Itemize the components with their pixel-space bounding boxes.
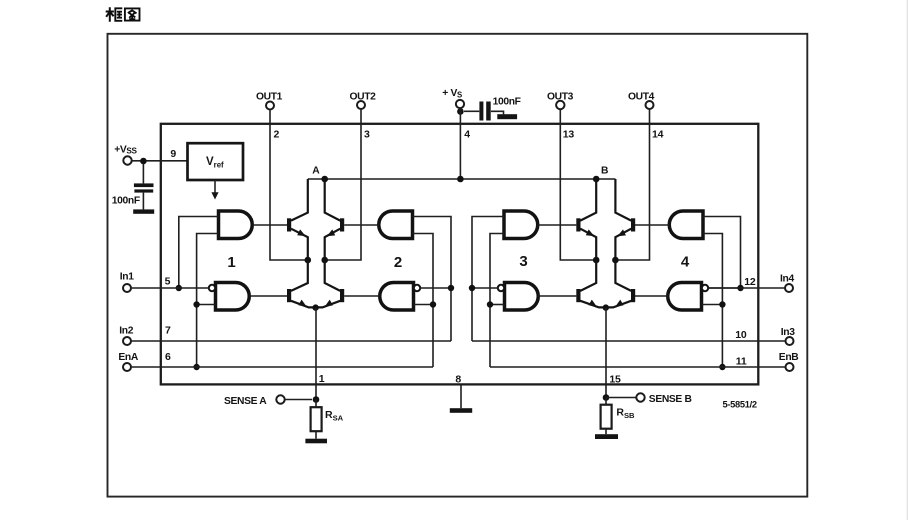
pin SENSE A: [224, 395, 312, 407]
gate 1 lower (NAND-style with bubble): [209, 283, 249, 311]
ground below RSB: [595, 429, 618, 439]
wire EnA across to gate2 loop: [131, 366, 433, 368]
pin In3 (10): [735, 327, 795, 345]
wire gate3-lower output to Q6 base: [538, 295, 576, 297]
wire gate1-upper output to Q1 base: [252, 224, 287, 226]
transistor Q8 (bridge B lower-right): [606, 260, 635, 307]
wire gate2-upper lower input loop to EnA: [413, 234, 434, 368]
transistor Q5 (bridge B upper-left): [576, 179, 596, 260]
ground (top, right of 100nF): [491, 111, 517, 119]
wire gate1-upper top input loop to In1: [179, 217, 219, 289]
gate 4 upper (AND, mirrored, driver block 4): [669, 211, 703, 271]
junction at +Vss: [140, 158, 147, 165]
svg-text:4: 4: [681, 254, 690, 271]
svg-text:+ VS: + VS: [442, 88, 462, 99]
transistor Q7 (bridge B upper-right): [615, 179, 635, 260]
pin +Vs (4): [442, 88, 470, 140]
wire OUT4 to bridge B right output node: [615, 109, 649, 260]
junction In3 bubble tee: [469, 285, 475, 291]
svg-text:4: 4: [464, 129, 470, 141]
svg-text:11: 11: [736, 355, 747, 367]
wire gate4-lower bottom input to EnB vertical: [702, 304, 723, 306]
gate 4 lower (NAND-style with bubble, mirrored): [668, 283, 708, 311]
wire OUT3 to bridge B left output node: [560, 109, 596, 260]
pin SENSE B: [606, 393, 692, 405]
junction +Vs on rail: [457, 176, 464, 183]
transistor Q6 (bridge B lower-left): [576, 260, 606, 307]
svg-text:EnA: EnA: [118, 352, 138, 363]
wire gate4-upper output to Q7 base: [635, 224, 669, 226]
junction gate2 EnA branch: [430, 301, 436, 307]
svg-text:8: 8: [455, 373, 461, 385]
svg-text:SENSE A: SENSE A: [224, 396, 267, 407]
wire gate2-lower bottom input to EnA vertical: [414, 304, 434, 306]
node sense B junction (bridge B emitters): [603, 304, 609, 310]
capacitor 100nF (top, at +Vs): [464, 96, 521, 120]
ground pin 8: [450, 408, 472, 413]
svg-text:12: 12: [744, 276, 756, 288]
svg-text:13: 13: [563, 128, 575, 140]
node OUT4 junction: [612, 257, 619, 264]
svg-text:100nF: 100nF: [493, 96, 521, 107]
wire gate4-lower bubble to In4 tee: [708, 287, 740, 289]
svg-text:In4: In4: [780, 274, 794, 285]
pin OUT4 (14): [628, 92, 664, 141]
svg-text:1: 1: [319, 373, 325, 385]
capacitor 100nF (left, at +Vss): [112, 164, 154, 207]
svg-text:2: 2: [394, 254, 402, 271]
pin EnA (6): [118, 351, 171, 371]
wire gate3-upper output to Q5 base: [538, 224, 577, 226]
wire EnB across to gate3 loop: [490, 366, 786, 368]
svg-text:100nF: 100nF: [112, 195, 140, 206]
internal +Vs rail A-B: [308, 178, 616, 180]
node sense A junction (bridge A emitters): [312, 304, 318, 310]
node OUT1 junction: [305, 257, 312, 264]
svg-text:5: 5: [165, 275, 171, 287]
transistor Q2 (bridge A lower-left): [287, 260, 316, 307]
pin In1 (5): [120, 272, 171, 292]
wire In3 across to gate3 loop: [472, 340, 786, 342]
wire +Vss to Vref: [132, 160, 187, 162]
gate 2 upper (AND, mirrored, driver block 2): [379, 211, 413, 271]
node A: [312, 166, 328, 183]
svg-text:15: 15: [609, 374, 621, 386]
junction sense A: [313, 396, 320, 403]
wire gate4-upper lower input loop to EnB: [703, 234, 722, 368]
transistor Q4 (bridge A lower-right): [316, 260, 345, 307]
svg-text:A: A: [312, 166, 320, 177]
junction EnB tee: [719, 364, 725, 370]
svg-text:In1: In1: [120, 272, 134, 283]
wire gate1-upper lower input loop to EnA: [197, 234, 219, 368]
pin +Vss (9): [114, 144, 176, 164]
outer figure frame: [108, 34, 808, 497]
IC block boundary: [161, 124, 759, 385]
svg-text:5-5851/2: 5-5851/2: [723, 400, 757, 410]
svg-text:2: 2: [274, 129, 280, 141]
title 框图 (hand-drawn CJK glyphs): [106, 7, 140, 21]
svg-text:9: 9: [170, 148, 176, 160]
wire gate4-upper top input loop to In4: [703, 217, 741, 289]
junction gate3 EnB branch: [487, 301, 493, 307]
wire gate2-upper output to Q3 base: [344, 224, 379, 226]
wire gate1-lower bottom input to EnA branch: [197, 304, 216, 306]
wire pin 15 sense B down: [606, 308, 621, 398]
wire pin 1 sense A down: [316, 308, 325, 400]
pin OUT1 (2): [256, 92, 283, 141]
wire OUT2 to bridge A right output node: [325, 109, 361, 260]
node OUT2 junction: [321, 257, 328, 264]
junction In1 tee: [176, 285, 182, 291]
junction sense B: [603, 394, 610, 401]
pin EnB (11): [736, 352, 799, 371]
gate 2 lower (NAND-style with bubble, mirrored): [380, 283, 420, 311]
svg-text:3: 3: [519, 253, 527, 270]
wire In4 to gate4 bubble: [708, 287, 785, 289]
pin OUT3 (13): [547, 92, 574, 141]
gate 3 upper (AND, driver block 3): [504, 211, 538, 270]
pin 8 ground stub: [455, 373, 461, 408]
wire gate1-lower output to Q2 base: [249, 295, 287, 297]
resistor RSA: [311, 400, 344, 432]
gate 3 lower (NAND-style with bubble): [498, 283, 538, 311]
wire gate2-lower bubble to In2 vertical: [420, 287, 451, 289]
ground (left, below 100nF): [133, 193, 154, 214]
pin OUT2 (3): [349, 92, 376, 141]
wire gate3-lower bottom input to EnB vertical: [490, 304, 505, 306]
wire OUT1 to bridge A left output node: [270, 110, 308, 261]
wire gate2-lower output to Q4 base: [344, 295, 380, 297]
Vref block U1: [188, 143, 244, 180]
junction gate1 EnA branch: [193, 301, 199, 307]
arrow below Vref: [211, 180, 218, 200]
junction EnA tee: [193, 364, 199, 370]
wire gate3-upper top input loop to In3: [472, 217, 504, 342]
svg-text:In2: In2: [119, 326, 133, 337]
wire gate3-lower bubble to In3 vertical: [472, 287, 498, 289]
svg-text:1: 1: [227, 254, 235, 271]
svg-text:EnB: EnB: [779, 352, 799, 363]
pin In2 (7): [119, 324, 171, 345]
wire In1 to gate1 bubble: [131, 287, 209, 289]
node B: [593, 166, 608, 183]
wire gate4-lower output to Q8 base: [635, 295, 668, 297]
svg-text:14: 14: [652, 128, 664, 140]
svg-text:B: B: [601, 166, 608, 177]
transistor Q1 (bridge A upper-left): [287, 179, 308, 260]
gate 1 upper (AND, driver block 1): [219, 211, 253, 271]
wire pin4 +Vs down to rail: [459, 108, 461, 179]
svg-text:10: 10: [735, 329, 747, 341]
svg-text:+VSS: +VSS: [114, 144, 137, 155]
wire gate2-upper top input loop to In2: [413, 217, 452, 342]
transistor Q3 (bridge A upper-right): [325, 179, 345, 260]
pin In4 (12): [744, 274, 794, 292]
resistor RSB: [601, 398, 635, 429]
wire gate3-upper lower input loop to EnB: [490, 234, 504, 368]
node OUT3 junction: [593, 257, 600, 264]
svg-text:3: 3: [364, 129, 370, 141]
wire In2 across to gate2 loop: [131, 340, 451, 342]
junction gate4 EnB branch: [719, 301, 725, 307]
svg-text:SENSE B: SENSE B: [649, 394, 692, 405]
junction In2 bubble tee: [448, 285, 454, 291]
svg-text:6: 6: [165, 351, 171, 363]
junction In4 tee: [737, 285, 743, 291]
faint page edge line: [906, 0, 908, 520]
ground below RSA: [305, 431, 327, 443]
svg-text:7: 7: [165, 324, 171, 336]
